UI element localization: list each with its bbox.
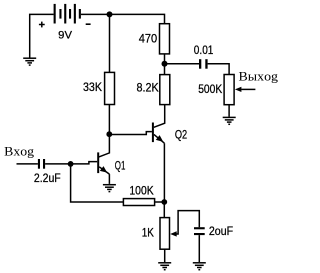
capacitor C1 2.2uF bbox=[38, 159, 45, 169]
svg-text:1K: 1K bbox=[142, 226, 154, 240]
resistor 100K bbox=[123, 199, 154, 206]
svg-text:Bxog: Bxog bbox=[4, 143, 34, 158]
ground (battery) bbox=[23, 58, 36, 65]
node D junction bbox=[161, 199, 167, 205]
capacitor C2 0.01 bbox=[199, 59, 208, 68]
svg-text:9V: 9V bbox=[58, 30, 72, 42]
battery B1 bbox=[54, 4, 81, 24]
ground (1K) bbox=[158, 263, 171, 270]
wire 470 to node C bbox=[164, 54, 166, 64]
node C junction bbox=[162, 61, 168, 67]
svg-text:100K: 100K bbox=[129, 183, 153, 197]
wire battery positive to left ground bbox=[30, 14, 54, 58]
node E junction bbox=[68, 161, 74, 167]
svg-text:2.2uF: 2.2uF bbox=[34, 171, 61, 185]
potentiometer 500K bbox=[224, 75, 241, 105]
wire node A to 470 resistor bbox=[110, 14, 165, 23]
svg-text:8.2K: 8.2K bbox=[137, 80, 159, 94]
wire node E to 100K bbox=[71, 164, 124, 202]
ground (C3) bbox=[193, 263, 206, 270]
svg-text:0.01: 0.01 bbox=[194, 43, 214, 57]
wire Q1 emitter to ground bbox=[108, 174, 110, 184]
wire Q2 emitter to node D bbox=[163, 143, 165, 202]
resistor 470 bbox=[160, 24, 170, 54]
ground (Q1 emitter) bbox=[103, 185, 116, 192]
capacitor C3 2ouF bbox=[194, 227, 205, 235]
wire C1 to Q1 base bbox=[45, 162, 97, 164]
svg-text:Q2: Q2 bbox=[175, 127, 188, 141]
wire battery negative to node A bbox=[81, 13, 110, 15]
svg-text:Q1: Q1 bbox=[115, 158, 126, 172]
wire 1K wiper to C3 bbox=[177, 211, 200, 234]
resistor 33K bbox=[105, 72, 115, 104]
node B junction bbox=[106, 131, 112, 137]
wire 500K to ground bbox=[228, 105, 230, 117]
label + bbox=[39, 22, 45, 28]
resistor 8.2K bbox=[160, 75, 170, 105]
wire C3 to ground bbox=[198, 235, 200, 262]
wire node B to Q1 collector bbox=[99, 134, 110, 157]
svg-text:500K: 500K bbox=[198, 82, 222, 96]
ground (500K) bbox=[223, 117, 236, 124]
wire 1K to ground bbox=[164, 249, 166, 262]
wire node C to 8.2K bbox=[164, 64, 166, 75]
wire 33K to node B bbox=[108, 105, 110, 135]
transistor Q2 bbox=[152, 123, 165, 144]
wire wiper output bbox=[241, 88, 255, 90]
svg-text:470: 470 bbox=[139, 31, 158, 45]
svg-text:33K: 33K bbox=[83, 80, 102, 94]
wire input to C1 bbox=[17, 163, 38, 165]
wire C2 to 500K bbox=[208, 64, 230, 75]
svg-text:2ouF: 2ouF bbox=[209, 224, 233, 238]
transistor Q1 bbox=[97, 152, 109, 174]
wire node A down to 33K bbox=[109, 14, 111, 72]
svg-text:Выxog: Выxog bbox=[239, 68, 279, 83]
wire node D to 1K bbox=[163, 202, 165, 217]
potentiometer 1K bbox=[160, 218, 177, 250]
wire node B to Q2 base bbox=[109, 132, 152, 135]
wire 8.2K to Q2 collector bbox=[154, 105, 165, 128]
node A junction bbox=[107, 11, 113, 17]
wire node C to C2 bbox=[165, 63, 200, 65]
wire 100K to node D bbox=[155, 201, 165, 203]
label - bbox=[86, 23, 91, 25]
